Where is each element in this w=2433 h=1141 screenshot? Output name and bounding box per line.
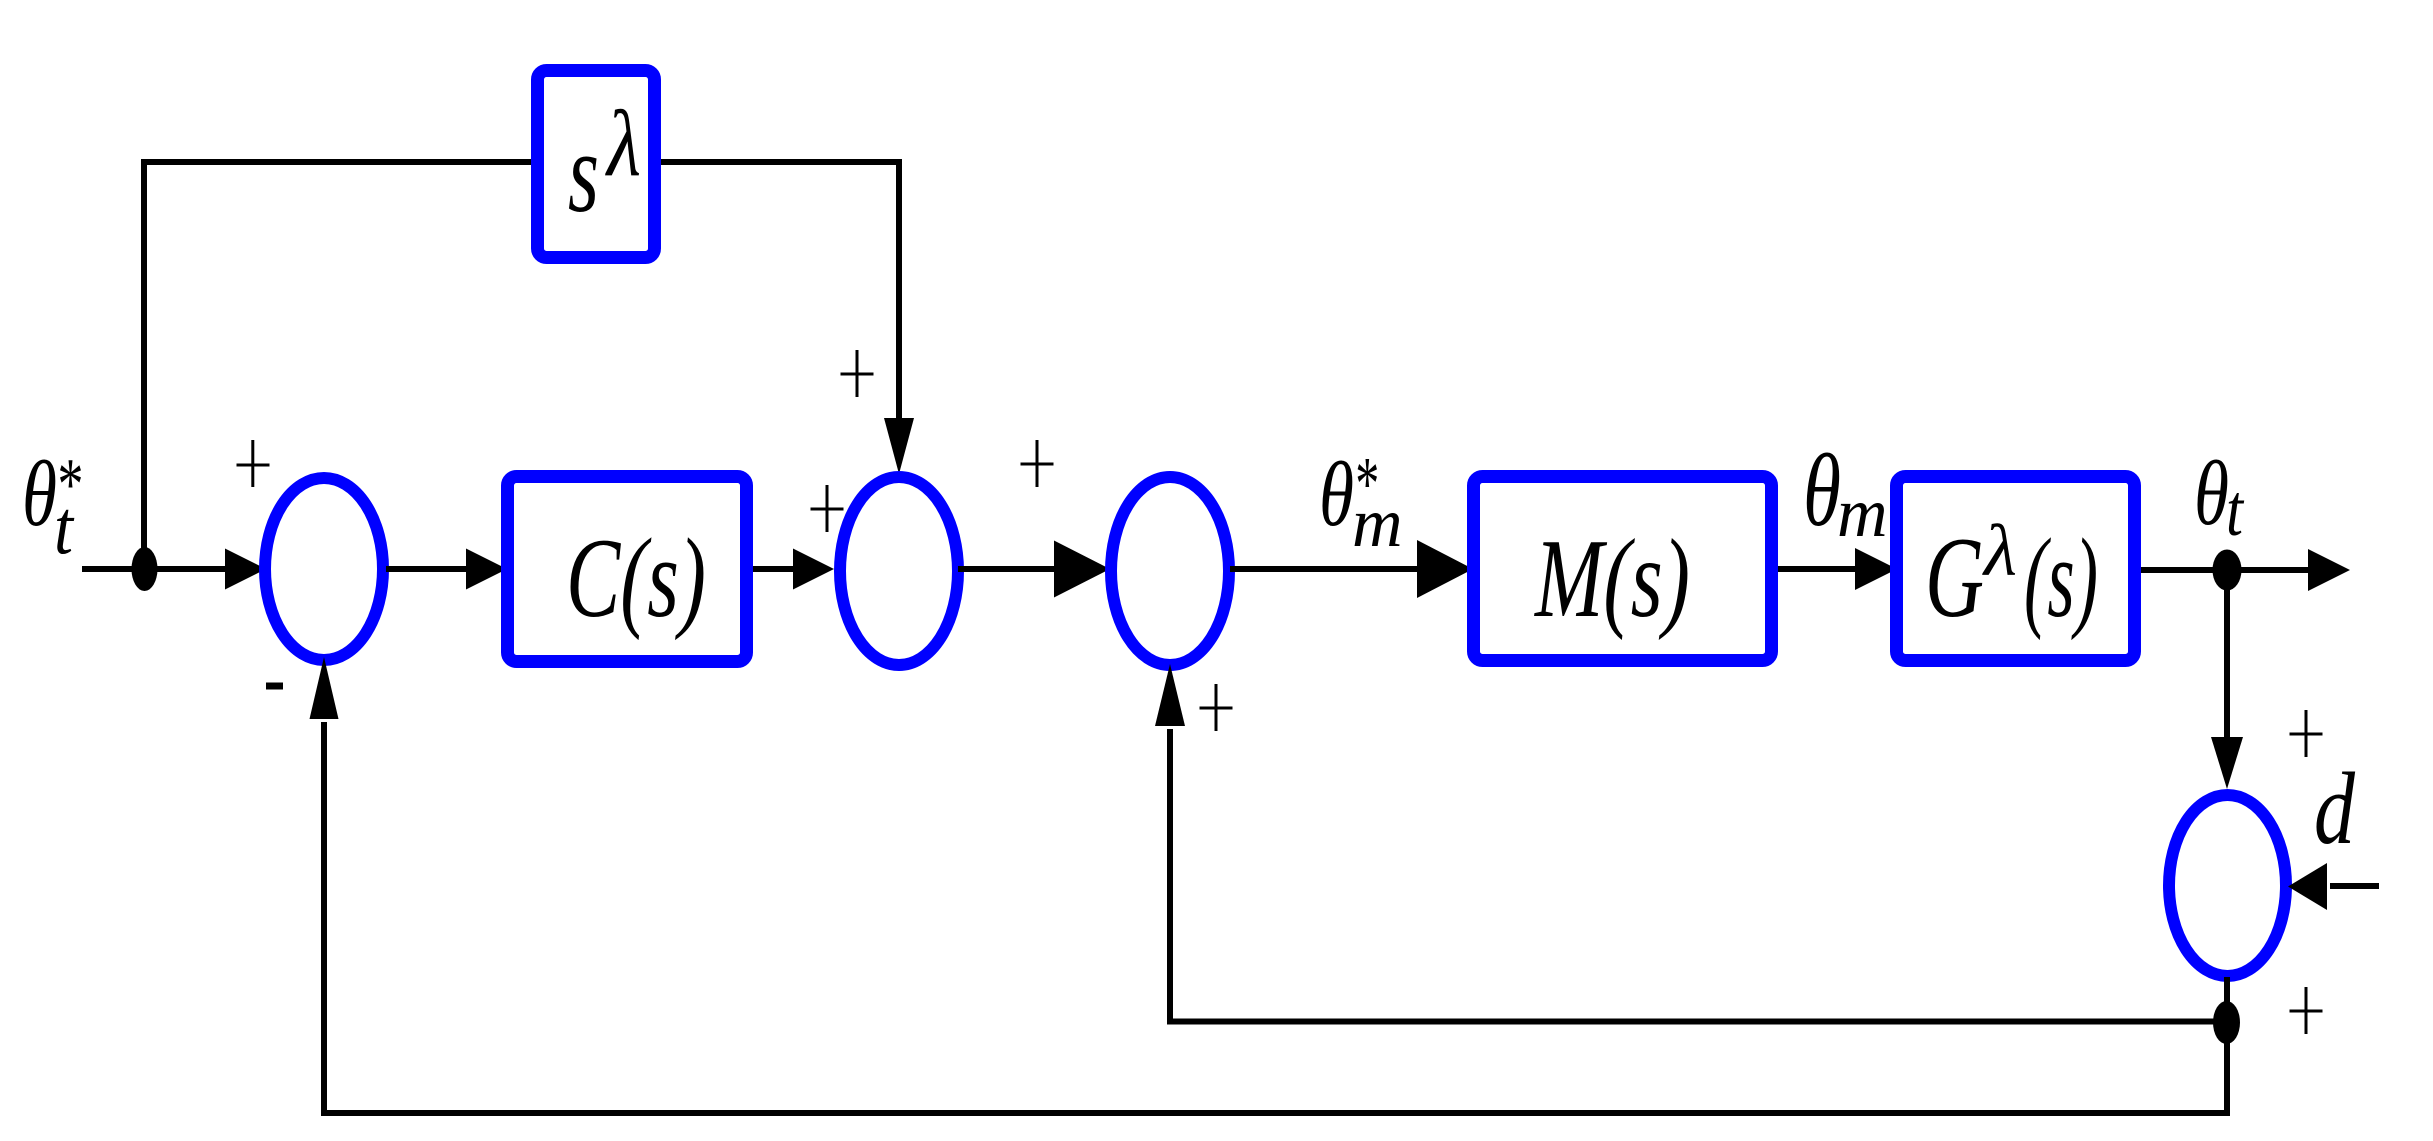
wire node B down to summing junction S4	[2224, 570, 2230, 740]
wire feedback node C to S3	[1170, 729, 2227, 1022]
svg-text:t: t	[54, 484, 74, 570]
plus sign at S2 vertical input	[841, 373, 874, 376]
node A (input pickoff dot)	[132, 547, 158, 591]
plus sign at node C output	[2290, 1010, 2323, 1013]
svg-text:m: m	[1837, 475, 1888, 552]
svg-text:θ: θ	[22, 443, 57, 546]
svg-text:θ: θ	[1319, 443, 1354, 545]
svg-text:λ: λ	[1982, 510, 2017, 591]
summing junction S4 (disturbance)	[2169, 795, 2286, 976]
plus sign at S3 vertical input	[1200, 707, 1233, 710]
plus sign at S3 horizontal input	[1021, 463, 1054, 466]
summing junction S3	[1111, 477, 1229, 665]
plus sign at S1 input	[237, 464, 270, 467]
block G^lambda(s)	[1897, 477, 2135, 661]
wire G to output, label theta_t	[2141, 567, 2311, 573]
svg-text:(s): (s)	[2024, 516, 2098, 641]
svg-text:s: s	[568, 109, 599, 236]
plus sign at S2 horizontal input	[811, 508, 844, 511]
wire S3 to block M(s), label theta_m*	[1230, 566, 1420, 572]
wire node A up to s-lambda block	[144, 162, 531, 569]
plus sign at S4 top input	[2290, 733, 2323, 736]
node B (output pickoff dot)	[2213, 550, 2242, 591]
svg-text:t: t	[2226, 470, 2245, 552]
svg-text:d: d	[2314, 752, 2355, 866]
node C (feedback pickoff dot)	[2213, 1001, 2240, 1044]
svg-text:θ: θ	[1803, 433, 1841, 548]
svg-text:M(s): M(s)	[1534, 517, 1690, 641]
block s^lambda	[538, 71, 655, 258]
svg-text:λ: λ	[604, 92, 641, 196]
wire C(s) to summing junction S2	[753, 566, 796, 572]
svg-text:G: G	[1925, 514, 1984, 641]
wire M(s) to block G, label theta_m	[1778, 566, 1858, 572]
summing junction S1	[265, 478, 383, 660]
svg-text:m: m	[1352, 485, 1403, 562]
summing junction S2	[840, 477, 958, 665]
wire S4 to node C	[2224, 977, 2230, 1022]
block C(s)	[508, 477, 747, 662]
wire input theta_t* to summing junction S1	[82, 566, 228, 572]
wire S2 to summing junction S3	[958, 566, 1057, 572]
wire s-lambda block to summing junction S2	[655, 162, 899, 421]
svg-text:θ: θ	[2194, 442, 2229, 544]
wire feedback node C to S1	[324, 722, 2227, 1113]
wire disturbance d into S4	[2330, 883, 2379, 889]
wire S1 to block C(s)	[386, 566, 469, 572]
block M(s)	[1474, 477, 1772, 661]
minus sign at S1 feedback input	[266, 683, 283, 690]
svg-text:C(s): C(s)	[566, 516, 706, 641]
